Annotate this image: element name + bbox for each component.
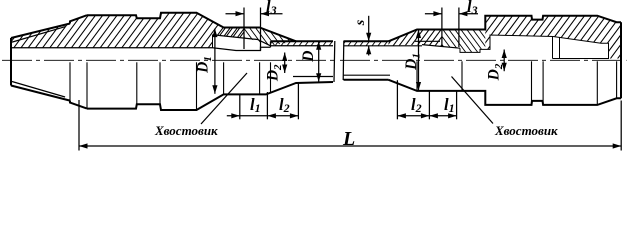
- svg-text:D: D: [300, 51, 317, 63]
- svg-text:s: s: [353, 19, 368, 26]
- svg-text:D2: D2: [264, 64, 283, 82]
- svg-text:D1: D1: [403, 53, 422, 71]
- svg-text:D2: D2: [485, 63, 504, 81]
- svg-text:D1: D1: [195, 56, 214, 74]
